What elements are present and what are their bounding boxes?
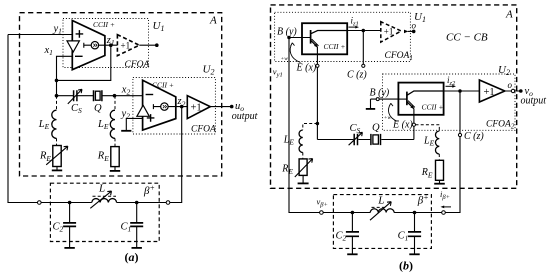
node z2 (a): [180, 105, 184, 109]
crystal Q (b): [371, 134, 381, 145]
wire crystal rail (b): [317, 139, 414, 141]
svg-text:C1: C1: [398, 231, 409, 243]
arrow i beta+ (b): [444, 206, 451, 208]
svg-text:LE: LE: [97, 119, 109, 131]
minus input U1 (a): [75, 55, 83, 57]
svg-text:vβ+: vβ+: [317, 197, 328, 209]
svg-text:CC − CB: CC − CB: [446, 32, 488, 44]
node x1-z1 junction (a): [55, 79, 59, 83]
svg-text:output: output: [521, 96, 547, 107]
svg-text:A: A: [505, 9, 513, 21]
svg-text:LE: LE: [38, 119, 50, 131]
svg-text:C2: C2: [336, 231, 347, 243]
port circle v beta+ (b): [320, 211, 324, 215]
node z1 (a): [109, 43, 113, 47]
svg-text:+1: +1: [121, 41, 131, 51]
port C(z)2 (b): [458, 133, 461, 136]
node iz2 junction (b): [458, 89, 462, 93]
ground B(y)2 (b): [370, 99, 372, 108]
svg-text:+w: +w: [384, 115, 392, 121]
svg-text:C2: C2: [53, 222, 64, 234]
output arrowhead U1 (b): [404, 30, 408, 34]
CCII box Q1 (b): [302, 23, 347, 54]
box A (b): [271, 5, 517, 188]
CFOA1 box (b): [275, 12, 411, 61]
wire z2 (a): [168, 106, 187, 108]
svg-text:C (z): C (z): [347, 70, 367, 81]
svg-text:U2: U2: [498, 64, 510, 77]
ground RE2 (b): [434, 183, 445, 185]
op-amp CCII trapezoid U1 (a): [72, 21, 105, 70]
port B(y)2 (b): [376, 98, 379, 101]
wire U1 buffer output (a): [139, 44, 157, 46]
wire emitter1 to crystal (b): [316, 67, 318, 139]
left feedback wire (a): [8, 35, 38, 203]
svg-text:CFOA2: CFOA2: [486, 120, 515, 131]
follower triangle U2 (a): [137, 105, 149, 116]
svg-text:RE: RE: [281, 164, 293, 176]
terminal uo (a): [230, 105, 234, 109]
inductor L (b): [370, 209, 394, 213]
inductor LE2 (a): [114, 96, 116, 111]
node C2 tap (a): [68, 201, 72, 205]
wire iz2 (b): [444, 90, 480, 92]
svg-text:iz1: iz1: [351, 16, 359, 28]
resistor RE1 (b): [299, 159, 307, 176]
terminal U1 output (a): [155, 43, 159, 47]
ground C2 (b): [347, 253, 357, 255]
svg-text:CCII +: CCII +: [324, 42, 346, 51]
node C2 tap (b): [351, 211, 355, 215]
wire U1 out (b): [408, 30, 414, 32]
transistor Q2 (b): [406, 92, 408, 106]
node x2 (a): [113, 94, 117, 98]
svg-text:(a): (a): [125, 250, 139, 264]
node iz1 junction (b): [362, 29, 366, 33]
svg-text:β+: β+: [417, 193, 429, 207]
arrow iz1 (b): [349, 26, 357, 28]
node LE1 tap (b): [316, 122, 320, 126]
ground RE2 (a): [110, 170, 120, 172]
crystal Q (a): [94, 90, 102, 101]
svg-text:RE: RE: [97, 151, 109, 163]
svg-text:vy1: vy1: [273, 67, 283, 79]
inductor LE1 (b): [303, 124, 318, 131]
capacitor CS (b): [354, 134, 357, 146]
svg-text:CFOA1: CFOA1: [385, 51, 413, 62]
ground y2 (a): [121, 130, 131, 132]
svg-text:B (y): B (y): [370, 88, 390, 99]
op-amp CCII trapezoid U2 (a): [143, 80, 176, 130]
svg-text:iβ+: iβ+: [440, 189, 450, 201]
wire vy1 (b): [289, 38, 320, 213]
follower triangle U1 (a): [67, 41, 79, 52]
wire z2 to tank (a): [170, 107, 182, 203]
CFOA2 box (b): [383, 74, 516, 130]
wire uo output (a): [210, 106, 231, 108]
svg-text:LE: LE: [283, 135, 295, 147]
svg-text:+1: +1: [484, 87, 495, 98]
svg-text:E (x): E (x): [296, 63, 317, 74]
transistor Q1 (b): [310, 30, 312, 44]
wire z1 (a): [99, 44, 118, 46]
wire C(z)1 stub (b): [362, 31, 364, 65]
port circle left tank terminal (a): [38, 201, 42, 205]
svg-text:L: L: [98, 182, 105, 194]
wire crystal rail (a): [57, 95, 143, 97]
inductor L (a): [92, 199, 117, 203]
svg-text:CCII +: CCII +: [422, 102, 444, 111]
ground C1 (a): [132, 247, 142, 249]
svg-text:CS: CS: [71, 103, 82, 115]
svg-text:z1: z1: [106, 35, 115, 47]
tank box (a): [50, 183, 159, 241]
wire B(y)2 (b): [371, 98, 399, 100]
terminal vo (b): [519, 89, 523, 93]
svg-text:E (x): E (x): [392, 120, 413, 131]
current mirror symbol U1 (a): [84, 43, 91, 48]
svg-text:iz2: iz2: [447, 75, 456, 87]
svg-text:x2: x2: [121, 85, 131, 97]
plus input U2 (a): [147, 114, 155, 122]
svg-text:z2: z2: [177, 96, 186, 108]
resistor RE1 (a): [53, 146, 61, 167]
minus input U2 (a): [146, 94, 154, 96]
svg-text:Q: Q: [372, 122, 380, 133]
wire tank rail (b): [323, 212, 442, 214]
svg-text:o: o: [508, 80, 513, 90]
capacitor C2 (b): [351, 213, 353, 254]
svg-text:Q: Q: [94, 103, 102, 114]
inductor LE2 (b): [416, 125, 440, 131]
capacitor C2 (a): [69, 203, 71, 248]
wire z1 feedback (a): [57, 45, 111, 80]
svg-text:C1: C1: [121, 222, 132, 234]
node B(y)1 (b): [287, 36, 291, 40]
svg-text:x1: x1: [44, 45, 53, 57]
wire C(z)2 (b): [445, 91, 460, 213]
svg-text:+w: +w: [281, 56, 289, 62]
wire tank rail left (a): [41, 202, 92, 204]
ground C1 (b): [409, 253, 419, 255]
port E(x)2 (b): [412, 123, 415, 126]
svg-text:A: A: [209, 15, 217, 27]
CFOA box U2 (a): [133, 78, 216, 135]
box A (a): [20, 13, 222, 176]
svg-text:B (y): B (y): [277, 27, 297, 38]
svg-text:output: output: [232, 111, 258, 122]
svg-text:U1: U1: [153, 20, 165, 33]
port circle i beta+ (b): [442, 211, 446, 215]
port C(z)1 (b): [362, 64, 365, 67]
port circle U2 out (b): [511, 89, 514, 92]
port circle right tank terminal (a): [166, 201, 170, 205]
svg-text:C (z): C (z): [464, 131, 484, 142]
buffer +1 dashed U1 (b): [381, 22, 401, 42]
wire emitter2 to crystal (b): [413, 126, 415, 139]
node C1 tap (b): [413, 211, 417, 215]
resistor RE2 (a): [111, 147, 119, 167]
svg-text:(b): (b): [399, 259, 413, 273]
buffer +1 solid U2 (a): [187, 96, 210, 119]
svg-text:+1: +1: [191, 102, 202, 113]
arrow iz2 (b): [446, 85, 454, 87]
capacitor C1 (a): [136, 203, 138, 248]
svg-text:LE: LE: [423, 136, 435, 148]
buffer +1 solid U2 (b): [479, 80, 504, 102]
svg-text:L: L: [377, 194, 384, 206]
svg-text:RE: RE: [421, 167, 433, 179]
svg-text:y1: y1: [53, 24, 62, 36]
terminal U1 out (b): [412, 30, 416, 34]
ground RE1 (b): [298, 182, 309, 184]
svg-text:o: o: [412, 21, 417, 31]
wire U2 out (b): [505, 90, 521, 92]
wire x1 (a): [57, 56, 73, 95]
svg-text:+1: +1: [384, 26, 394, 36]
buffer +1 dashed U1 (a): [117, 35, 139, 56]
port E(x)1 (b): [316, 64, 319, 67]
svg-text:RE: RE: [39, 151, 51, 163]
node rail-x1 (a): [55, 94, 59, 98]
capacitor CS (a): [74, 90, 77, 101]
CCII box Q2 (b): [398, 83, 443, 115]
svg-text:U2: U2: [203, 64, 215, 77]
node C1 tap (a): [135, 201, 139, 205]
svg-text:β+: β+: [143, 183, 155, 197]
plus input U1 (a): [76, 30, 84, 38]
ground C2 (a): [64, 247, 74, 249]
wire iz1 (b): [347, 30, 381, 32]
capacitor C1 (b): [414, 213, 416, 254]
resistor RE2 (b): [436, 160, 444, 180]
tank box (b): [333, 195, 431, 249]
ground RE1 (a): [52, 169, 62, 171]
svg-text:CFOA: CFOA: [191, 125, 216, 135]
svg-text:y2: y2: [121, 108, 131, 120]
wire y2 (a): [126, 118, 142, 130]
svg-text:CS: CS: [350, 123, 361, 135]
wire y1 (a): [8, 34, 72, 36]
svg-text:CFOA: CFOA: [125, 60, 150, 70]
wire tank rail right (a): [117, 202, 167, 204]
rotation arrow Q2 (b): [389, 103, 398, 121]
CFOA box U1 (a): [63, 19, 149, 68]
inductor LE1 (a): [56, 96, 58, 111]
current mirror symbol U2 (a): [153, 104, 160, 109]
rotation arrow Q1 (b): [290, 43, 300, 63]
svg-text:CCII +: CCII +: [93, 20, 115, 29]
